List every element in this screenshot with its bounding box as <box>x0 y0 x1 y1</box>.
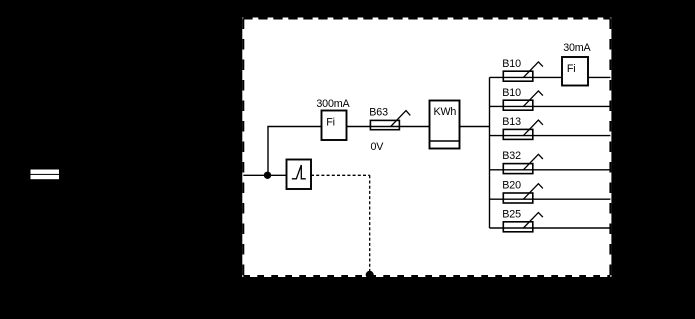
svg-text:300mA: 300mA <box>316 98 350 110</box>
svg-text:0V: 0V <box>371 141 385 153</box>
svg-text:B20: B20 <box>502 180 521 192</box>
svg-text:Fi: Fi <box>567 63 576 75</box>
svg-text:30mA: 30mA <box>563 42 591 54</box>
svg-text:B10: B10 <box>502 87 521 99</box>
svg-text:B10: B10 <box>502 58 521 70</box>
svg-text:B63: B63 <box>369 107 388 119</box>
svg-text:B25: B25 <box>502 208 521 220</box>
svg-text:B32: B32 <box>502 150 521 162</box>
svg-text:KWh: KWh <box>434 106 457 118</box>
svg-text:Fi: Fi <box>326 117 335 129</box>
svg-text:B13: B13 <box>502 116 521 128</box>
